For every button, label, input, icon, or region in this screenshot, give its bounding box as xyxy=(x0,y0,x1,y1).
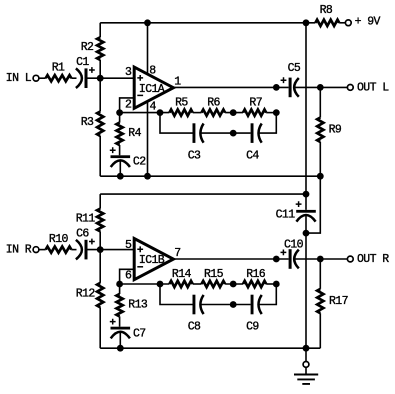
node OUT R xyxy=(317,256,324,263)
terminal ground xyxy=(303,362,309,368)
svg-text:R17: R17 xyxy=(329,295,348,308)
wire rail to R11 xyxy=(99,194,101,209)
capacitor C5 xyxy=(289,78,292,98)
wire feedback row xyxy=(120,112,170,114)
plus C2 xyxy=(110,147,116,153)
plus C11 xyxy=(296,201,302,207)
wire R1 to C1 xyxy=(71,77,76,79)
node input L junction xyxy=(97,75,104,82)
svg-text:C3: C3 xyxy=(188,149,201,162)
wire R2 to node xyxy=(99,60,101,78)
wire rail to R2 xyxy=(99,23,101,38)
resistor R12 xyxy=(97,283,103,307)
svg-text:R2: R2 xyxy=(81,41,94,54)
svg-text:R5: R5 xyxy=(175,96,188,109)
plus C7 xyxy=(110,319,116,325)
wire C11 to ground node xyxy=(305,216,307,233)
plus C1 xyxy=(89,67,95,73)
svg-text:R9: R9 xyxy=(329,123,342,136)
ground xyxy=(294,375,318,384)
capacitor C8 xyxy=(193,295,196,315)
capacitor C4 xyxy=(251,123,254,143)
resistor R7 xyxy=(243,110,266,116)
resistor R14 xyxy=(169,281,192,287)
wire OUT L to R9 xyxy=(319,87,321,117)
wire IN L terminal to R1 xyxy=(39,77,46,79)
svg-text:R12: R12 xyxy=(76,288,96,301)
svg-text:IC1A: IC1A xyxy=(139,83,165,96)
wire IN R terminal to R10 xyxy=(39,249,46,251)
capacitor C11 xyxy=(296,210,316,213)
wire R8 to +9V terminal xyxy=(339,22,345,24)
svg-text:C5: C5 xyxy=(288,62,301,75)
node inverting L xyxy=(116,109,123,116)
wire C1 to pin 3 xyxy=(88,77,134,79)
svg-text:8: 8 xyxy=(149,64,156,77)
wire pin 8 to rail xyxy=(147,23,149,75)
svg-text:C2: C2 xyxy=(133,155,146,168)
wire node to R12 xyxy=(99,250,101,283)
svg-text:IC1B: IC1B xyxy=(139,254,165,267)
node feedback R right xyxy=(273,281,280,288)
wire C7 to bottom rail xyxy=(119,333,121,348)
wire ground stem lower xyxy=(305,367,307,374)
node inverting R xyxy=(116,281,123,288)
svg-text:7: 7 xyxy=(174,247,180,260)
minus IC1A inverting xyxy=(137,94,143,96)
capacitor C3 xyxy=(193,123,196,143)
junction bottom rail right xyxy=(317,173,324,180)
resistor R5 xyxy=(169,110,192,116)
capacitor C7 xyxy=(111,327,131,330)
wire output L xyxy=(173,86,288,88)
terminal OUT R xyxy=(347,256,353,262)
op-amp U1 IC1A triangle xyxy=(134,67,173,108)
wire rail B middle xyxy=(306,176,320,233)
wire R9 to bottom rail xyxy=(319,142,321,176)
svg-text:C4: C4 xyxy=(246,149,259,162)
wire C6 to pin 5 xyxy=(88,249,134,251)
junction pin8 on rail xyxy=(144,19,151,26)
svg-text:5: 5 xyxy=(125,239,132,252)
terminal +9V xyxy=(345,20,351,26)
junction supply rail xyxy=(303,19,310,26)
wire R13 to C7 xyxy=(119,316,121,326)
svg-text:R13: R13 xyxy=(128,299,148,312)
svg-text:IN R: IN R xyxy=(6,244,32,257)
svg-text:R16: R16 xyxy=(246,268,266,281)
svg-text:6: 6 xyxy=(125,270,132,283)
node R15 R16 junction xyxy=(230,281,237,288)
wire R7 right xyxy=(266,112,276,114)
svg-text:C11: C11 xyxy=(276,208,296,221)
node output L fb tap xyxy=(273,84,280,91)
capacitor C2 xyxy=(111,155,131,158)
wire R6 to R7 xyxy=(225,112,243,114)
wire C9 right up xyxy=(259,284,277,305)
svg-text:C6: C6 xyxy=(76,227,89,240)
wire pin 4 to bottom rail xyxy=(147,101,149,176)
node C8 C9 junction xyxy=(230,301,237,308)
resistor R13 xyxy=(117,294,123,316)
minus IC1B inverting xyxy=(137,266,143,268)
junction C7 bottom xyxy=(117,345,124,352)
svg-text:R11: R11 xyxy=(76,213,96,226)
plus C5 xyxy=(281,77,287,83)
resistor R17 xyxy=(317,289,323,313)
junction C2 bottom xyxy=(117,173,124,180)
resistor R8 xyxy=(315,20,339,26)
plus C6 xyxy=(89,239,95,245)
terminal IN L xyxy=(33,75,39,81)
wire ground rail xyxy=(305,233,307,348)
svg-text:R3: R3 xyxy=(81,116,94,129)
plus IC1B noninverting xyxy=(137,246,143,252)
svg-text:C1: C1 xyxy=(76,56,89,69)
resistor R3 xyxy=(97,112,103,136)
wire C4 right up xyxy=(259,113,277,134)
resistor R11 xyxy=(97,209,103,232)
wire R15 to R16 xyxy=(225,283,243,285)
resistor R9 xyxy=(317,118,323,142)
node feedback left xyxy=(157,109,164,116)
wire pin 6 stub xyxy=(120,269,135,284)
wire R16 right xyxy=(266,283,276,285)
junction ground node rail xyxy=(303,345,310,352)
wire C2 to bottom rail xyxy=(119,162,121,177)
node C3 C4 junction xyxy=(230,130,237,137)
junction pin4 bottom xyxy=(144,173,151,180)
wire fb left drop xyxy=(160,113,193,134)
wire R14 to R15 xyxy=(193,283,202,285)
wire R12 to bottom rail xyxy=(99,307,101,348)
wire pin 2 stub xyxy=(120,98,135,113)
wire R13 top lead xyxy=(119,284,121,294)
wire fb R left drop xyxy=(160,284,193,305)
wire C3 to C4 xyxy=(200,132,250,134)
svg-text:R8: R8 xyxy=(320,4,333,17)
node feedback R left xyxy=(157,281,164,288)
svg-text:3: 3 xyxy=(125,66,132,79)
wire top rail xyxy=(100,22,315,24)
node input R junction xyxy=(97,246,104,253)
wire R4 to C2 xyxy=(119,145,121,155)
svg-text:2: 2 xyxy=(125,98,132,111)
svg-text:R10: R10 xyxy=(49,233,69,246)
svg-text:OUT L: OUT L xyxy=(357,82,389,95)
capacitor C6 xyxy=(76,240,82,260)
node R6 R7 junction xyxy=(230,109,237,116)
wire R5 to R6 xyxy=(193,112,202,114)
wire ground stem upper xyxy=(305,348,307,361)
wire R10 to C6 xyxy=(71,249,76,251)
svg-text:OUT R: OUT R xyxy=(357,253,389,266)
capacitor C1 xyxy=(76,68,82,88)
resistor R2 xyxy=(97,37,103,60)
wire C10 to OUT R xyxy=(294,258,347,260)
wire bottom rail R xyxy=(100,347,320,349)
svg-text:C7: C7 xyxy=(133,328,146,341)
svg-text:IN L: IN L xyxy=(6,72,32,85)
svg-text:R15: R15 xyxy=(204,268,224,281)
terminal OUT L xyxy=(347,85,353,91)
capacitor C9 xyxy=(251,295,254,315)
op-amp U1 IC1B triangle xyxy=(134,239,173,280)
resistor R4 xyxy=(117,123,123,145)
resistor R1 xyxy=(46,75,72,81)
wire top rail R section xyxy=(100,193,306,195)
wire R3 to bottom rail xyxy=(99,136,101,176)
wire C5 to OUT L xyxy=(294,86,347,88)
wire bottom rail L xyxy=(100,175,320,177)
wire C8 to C9 xyxy=(200,304,250,306)
resistor R6 xyxy=(202,110,226,116)
plus IC1A noninverting xyxy=(137,75,143,81)
wire output R xyxy=(173,258,288,260)
svg-text:R6: R6 xyxy=(207,96,220,109)
svg-text:+ 9V: + 9V xyxy=(355,16,381,29)
wire R4 top lead xyxy=(119,113,121,123)
terminal IN R xyxy=(33,247,39,253)
plus C10 xyxy=(281,250,287,256)
wire supply rail A xyxy=(305,23,307,210)
wire node to R3 xyxy=(99,78,101,111)
svg-text:C10: C10 xyxy=(284,238,304,251)
node feedback right xyxy=(273,109,280,116)
capacitor C10 xyxy=(289,249,292,269)
wire R11 to node xyxy=(99,231,101,249)
resistor R16 xyxy=(243,281,266,287)
node output R fb tap xyxy=(273,256,280,263)
resistor R10 xyxy=(46,247,72,253)
svg-text:C9: C9 xyxy=(246,321,259,334)
junction rail A bottom section xyxy=(303,191,310,198)
svg-text:C8: C8 xyxy=(188,321,201,334)
wire OUT R to R17 xyxy=(319,259,321,289)
node OUT L xyxy=(317,84,324,91)
svg-text:R4: R4 xyxy=(128,127,141,140)
wire R17 to bottom rail xyxy=(319,313,321,348)
resistor R15 xyxy=(202,281,226,287)
node C11 ground junction xyxy=(303,230,310,237)
svg-text:R14: R14 xyxy=(172,268,192,281)
svg-text:4: 4 xyxy=(150,100,157,113)
wire feedback row R xyxy=(120,283,170,285)
svg-text:R1: R1 xyxy=(52,62,65,75)
